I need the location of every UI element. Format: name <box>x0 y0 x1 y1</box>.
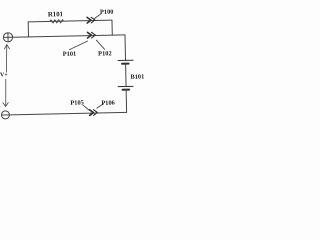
leader P100 <box>94 14 100 18</box>
leader P106 <box>97 104 104 108</box>
plug P101 jack P102 <box>87 32 95 38</box>
svg-text:P105: P105 <box>70 99 84 106</box>
source positive terminal circle <box>3 33 12 42</box>
wire battery top vertical <box>124 35 127 60</box>
leader P102 <box>96 40 104 49</box>
source negative terminal circle <box>1 111 9 119</box>
svg-text:V+: V+ <box>0 72 8 78</box>
wire row2 horizontal <box>13 35 125 37</box>
wire battery middle vertical <box>125 64 127 87</box>
svg-text:B101: B101 <box>130 73 144 80</box>
plug P105 jack P106 <box>90 110 98 116</box>
svg-text:R101: R101 <box>48 11 64 18</box>
arrow down to negative terminal <box>2 79 8 106</box>
svg-text:P101: P101 <box>63 51 77 58</box>
battery B101 cell 1 positive plate <box>118 59 133 61</box>
wire junction vertical left <box>27 22 29 37</box>
leader P105 <box>83 105 89 110</box>
svg-text:P100: P100 <box>100 9 114 16</box>
arrow up to positive terminal <box>4 45 10 73</box>
svg-text:P102: P102 <box>98 50 112 57</box>
battery B101 cell 2 positive plate <box>118 85 133 87</box>
wire top row horizontal <box>28 20 112 22</box>
battery B101 cell 2 negative plate <box>123 89 129 91</box>
svg-text:P106: P106 <box>101 100 115 107</box>
plug P100 <box>87 17 95 23</box>
wire bottom row horizontal <box>9 112 126 114</box>
resistor R1 <box>50 20 64 23</box>
battery B101 cell 1 negative plate <box>122 63 128 65</box>
leader P101 <box>69 41 88 50</box>
wire battery bottom vertical <box>125 90 127 113</box>
wire top right vertical <box>111 20 113 35</box>
